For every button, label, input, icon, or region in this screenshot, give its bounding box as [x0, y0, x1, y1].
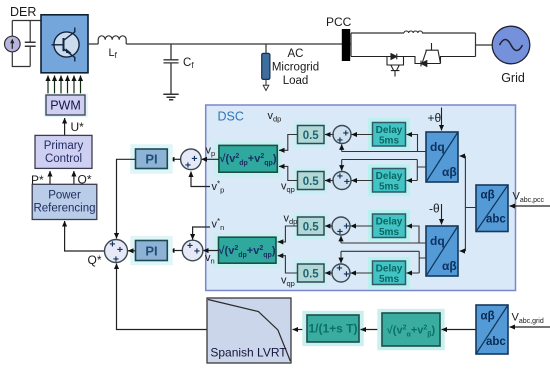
- transistor Q1 (inverter symbol): [52, 28, 80, 62]
- svg-text:Referencing: Referencing: [33, 203, 95, 215]
- inductor (bypass): [404, 31, 422, 33]
- block Power Referencing: [32, 184, 97, 219]
- svg-text:5ms: 5ms: [379, 274, 399, 285]
- inverter box: [41, 15, 88, 73]
- svg-text:+: +: [337, 226, 343, 238]
- wire sqrt_ab to 1/(1+sT): [361, 329, 383, 331]
- svg-text:abc: abc: [486, 336, 506, 348]
- wire v*p reference: [191, 172, 210, 187]
- summing junction S2: [333, 172, 351, 190]
- delay block D3: [368, 210, 410, 242]
- wire row3 d-signal: [341, 226, 426, 243]
- svg-text:+: +: [185, 160, 191, 172]
- svg-text:Spanish LVRT: Spanish LVRT: [210, 346, 287, 360]
- capacitor DC-link: [25, 42, 36, 46]
- svg-text:+: +: [191, 153, 197, 165]
- delay block D2: [368, 164, 410, 196]
- svg-text:Control: Control: [45, 153, 82, 165]
- wire row1 0.5 out: [279, 135, 298, 151]
- svg-text:5ms: 5ms: [379, 227, 399, 238]
- svg-text:Vabc,pcc: Vabc,pcc: [513, 191, 545, 205]
- transform dq-ab positive: [426, 132, 458, 182]
- wire row1 sum out: [325, 134, 334, 136]
- wire row3 sum out: [325, 225, 333, 227]
- controller PI2: [130, 236, 172, 265]
- svg-text:+: +: [344, 176, 350, 188]
- wire row2 0.5 out: [279, 166, 298, 180]
- svg-text:PI: PI: [145, 152, 157, 167]
- wire to grid: [476, 44, 493, 46]
- gain 0.5 row3: [293, 213, 327, 239]
- svg-text:0.5: 0.5: [303, 221, 320, 233]
- svg-text:Delay: Delay: [376, 217, 403, 228]
- svg-text:Delay: Delay: [376, 264, 403, 275]
- wire sumP to PI1: [169, 158, 181, 160]
- wire row4 q-signal: [341, 251, 426, 273]
- wire DER loop: [12, 21, 41, 67]
- wire row4 0.5 out: [278, 256, 298, 273]
- delay block D4: [368, 257, 410, 289]
- load AC Microgrid Load: [262, 53, 270, 79]
- transistor Q2 (left IGBT with diode): [351, 54, 404, 77]
- wire row1 delay out: [352, 134, 373, 136]
- svg-text:dq: dq: [430, 234, 445, 248]
- grid source: [492, 26, 530, 64]
- summing junction SP (vp error): [181, 149, 202, 170]
- wire row2 sum out: [325, 180, 334, 182]
- summing junction S4: [332, 264, 350, 282]
- transform dq-ab negative: [426, 226, 458, 276]
- transform ab-abc (grid): [476, 305, 508, 354]
- svg-text:Delay: Delay: [376, 171, 403, 182]
- svg-text:Load: Load: [283, 75, 309, 87]
- svg-text:Q*: Q*: [88, 253, 102, 267]
- svg-text:Delay: Delay: [376, 125, 403, 136]
- wire LVRT output to sumQ: [117, 264, 208, 330]
- sqrt block alpha-beta: [377, 309, 444, 350]
- gain 0.5 row2: [293, 167, 327, 193]
- block PWM: [44, 93, 87, 117]
- wire row1 d-signal: [342, 135, 426, 152]
- wire main AC bus: [88, 43, 351, 45]
- svg-text:PI: PI: [145, 244, 157, 259]
- svg-text:0.5: 0.5: [303, 268, 320, 280]
- wire row2 delay out: [352, 180, 373, 182]
- summing junction SQ: [105, 240, 128, 263]
- block Primary Control: [35, 135, 92, 168]
- wire ab-abc to sqrt_ab: [442, 329, 477, 331]
- wire row4 delay out: [351, 272, 373, 274]
- summing junction S1: [333, 126, 351, 144]
- svg-text:+: +: [194, 246, 200, 258]
- block Spanish LVRT: [207, 298, 291, 363]
- svg-text:+: +: [336, 263, 342, 275]
- capacitor Cf: [164, 44, 179, 94]
- wire row4 sum out: [325, 272, 333, 274]
- svg-text:+θ: +θ: [428, 111, 442, 125]
- svg-text:αβ: αβ: [442, 165, 457, 179]
- summing junction S3: [332, 217, 350, 235]
- transistor Q3 (right IGBT with diode): [404, 43, 476, 66]
- current source DER: [5, 36, 21, 52]
- wire row3 delay out: [351, 225, 373, 227]
- svg-text:DER: DER: [10, 5, 36, 19]
- wire vp output: [202, 158, 219, 160]
- svg-text:0.5: 0.5: [303, 176, 320, 188]
- wire ab bus to dq blocks: [465, 156, 476, 251]
- svg-text:Primary: Primary: [44, 140, 84, 152]
- svg-text:Grid: Grid: [501, 71, 525, 85]
- wire Vabc,grid input: [510, 326, 550, 328]
- svg-text:+: +: [343, 221, 349, 233]
- svg-text:DSC: DSC: [218, 110, 244, 124]
- bypass switch box (outline): [351, 33, 476, 57]
- transform ab-abc (pcc): [476, 185, 508, 232]
- wire sumN to PI2: [169, 250, 182, 252]
- svg-text:PCC: PCC: [326, 15, 352, 29]
- svg-text:Cf: Cf: [183, 57, 194, 70]
- svg-text:αβ: αβ: [481, 311, 495, 323]
- svg-text:+: +: [343, 128, 349, 140]
- sqrt block negative sequence: [214, 233, 280, 267]
- svg-text:Microgrid: Microgrid: [272, 62, 319, 74]
- inductor Lf: [98, 36, 126, 44]
- svg-text:+: +: [187, 240, 193, 252]
- wire load branch: [265, 44, 267, 53]
- svg-text:Power: Power: [48, 190, 81, 202]
- svg-text:+: +: [343, 269, 349, 281]
- wire 1/(1+sT) to LVRT: [293, 329, 308, 331]
- summing junction SN (vn error): [182, 240, 203, 261]
- gain 0.5 row4: [293, 260, 327, 286]
- svg-text:Vabc,grid: Vabc,grid: [512, 312, 544, 326]
- svg-text:1/(1+s T): 1/(1+s T): [308, 322, 357, 336]
- svg-text:+: +: [337, 171, 343, 183]
- DSC box: [206, 105, 516, 291]
- wire vn output: [203, 250, 219, 252]
- wire Q* (to Primary Control): [73, 171, 75, 184]
- gain 0.5 row1: [293, 121, 327, 147]
- svg-text:abc: abc: [486, 214, 506, 226]
- controller PI1: [130, 144, 172, 173]
- svg-text:-θ: -θ: [429, 202, 440, 216]
- svg-text:U*: U*: [71, 120, 85, 134]
- wire Q* feed (sum to Power Referencing): [65, 221, 104, 251]
- wire v*n reference: [193, 227, 210, 240]
- svg-text:αβ: αβ: [442, 259, 457, 273]
- svg-text:5ms: 5ms: [379, 182, 399, 193]
- svg-text:αβ: αβ: [481, 190, 495, 202]
- delay block D1: [368, 118, 410, 150]
- svg-text:0.5: 0.5: [303, 130, 320, 142]
- svg-text:Lf: Lf: [109, 47, 118, 60]
- wire row3 0.5 out: [278, 226, 298, 242]
- wire row2 q-signal: [342, 160, 426, 181]
- block 1/(1+sT): [302, 311, 363, 346]
- wire P*: [49, 171, 51, 184]
- wire PI1 to sumQ: [117, 159, 136, 238]
- svg-text:AC: AC: [288, 48, 304, 60]
- ground (below Cf): [163, 94, 178, 99]
- wire PI2 to sumQ: [128, 250, 136, 252]
- svg-text:dq: dq: [430, 140, 445, 154]
- svg-text:PWM: PWM: [50, 99, 81, 113]
- sqrt block positive sequence: [214, 141, 281, 176]
- svg-text:5ms: 5ms: [379, 136, 399, 147]
- svg-text:+: +: [109, 239, 115, 251]
- gate drive arrows (PWM to inverter): [48, 76, 81, 96]
- wire U* (Primary Control to PWM): [64, 118, 66, 135]
- wire Vabc,pcc input: [510, 205, 550, 207]
